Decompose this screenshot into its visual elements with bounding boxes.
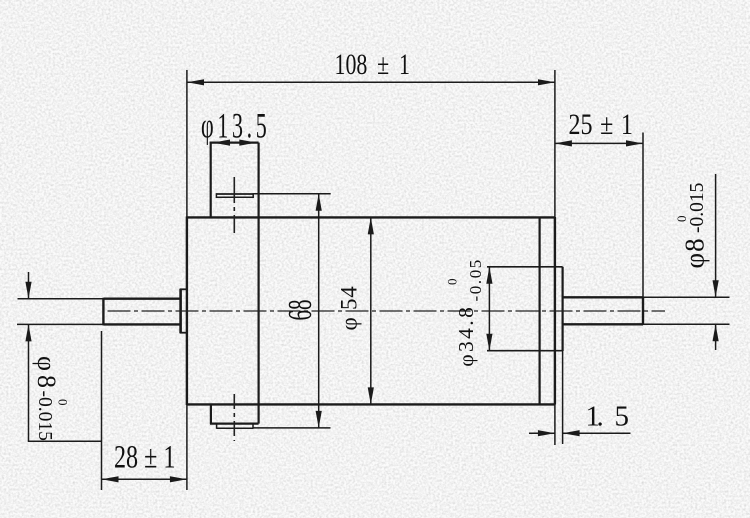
svg-text:5: 5 [615, 401, 630, 433]
dimension phi54 [368, 217, 374, 404]
svg-text:-0.015: -0.015 [34, 391, 55, 441]
dimension 25+-1 line [555, 140, 643, 146]
text 25+-1 [569, 107, 633, 140]
svg-text:.: . [597, 401, 604, 433]
text phi13.5 [201, 106, 270, 146]
text 68 rotated [282, 299, 319, 320]
svg-text:-0.015: -0.015 [687, 183, 708, 233]
svg-text:-0.05: -0.05 [466, 258, 485, 301]
svg-text:25 ± 1: 25 ± 1 [569, 107, 633, 140]
svg-text:0: 0 [445, 279, 460, 286]
svg-text:φ34.8: φ34.8 [454, 305, 478, 367]
svg-text:0: 0 [674, 216, 689, 223]
dimension 108+-1 line [187, 79, 555, 85]
motor body outline [187, 217, 555, 406]
text 1.5 [586, 401, 630, 433]
text phi34.8 rotated with tolerance [445, 258, 486, 367]
bottom ear disc [217, 423, 253, 428]
left shaft [103, 298, 180, 326]
svg-text:φ13.5: φ13.5 [201, 106, 270, 146]
svg-text:28 ± 1: 28 ± 1 [114, 439, 175, 476]
text 108+-1 [335, 48, 411, 81]
svg-text:0: 0 [56, 399, 71, 406]
bottom boss centerline [233, 394, 235, 441]
extension line right phi8 bottom [643, 323, 730, 325]
bottom boss [210, 404, 259, 423]
rear flange (1.5 plate) [487, 267, 563, 351]
right end-cap joint line [538, 217, 540, 404]
svg-text:68: 68 [282, 299, 319, 320]
left end-cap joint line [258, 143, 260, 424]
body right edge / flange left edge [554, 70, 556, 445]
text phi54 rotated [337, 285, 362, 330]
top boss centerline [233, 177, 235, 233]
dimension phi13.5 arrows [213, 140, 256, 146]
main horizontal centerline [108, 310, 666, 312]
dimension 28+-1 line [102, 476, 187, 482]
dimension 68 [253, 194, 331, 428]
text 28+-1 [114, 439, 175, 476]
extension line 28 left [101, 331, 103, 490]
dimension phi34.8 [486, 267, 492, 351]
dimension left phi8 [17, 272, 103, 441]
dimension right phi8 line [713, 174, 719, 350]
text left phi8 with tolerance [32, 356, 71, 441]
left shaft collar [180, 289, 187, 333]
extension line 108 left [186, 70, 188, 217]
svg-text:108 ± 1: 108 ± 1 [335, 48, 411, 81]
top ear disc [216, 193, 253, 198]
dimension 1.5 [529, 430, 631, 436]
extension line 28 right / body left extended [186, 405, 188, 490]
svg-text:54: 54 [337, 285, 362, 310]
extension line 25 right [642, 133, 644, 298]
extension line 1.5 right [562, 351, 564, 444]
svg-text:φ8: φ8 [680, 237, 710, 268]
top boss [210, 142, 259, 218]
svg-text:φ: φ [337, 317, 362, 330]
extension line right phi8 top [643, 296, 730, 298]
text right phi8 with tolerance [674, 183, 710, 269]
right shaft [563, 297, 643, 324]
svg-text:φ8: φ8 [32, 356, 61, 392]
